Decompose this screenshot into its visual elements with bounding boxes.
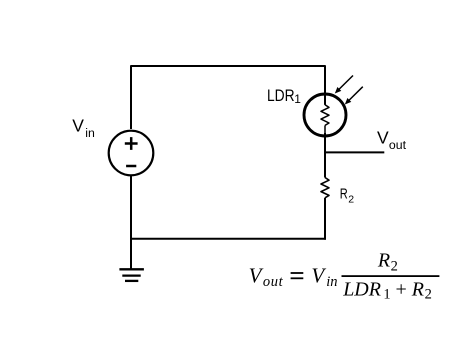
LDR zigzag element (321, 105, 329, 126)
wire bottom (ground junction to R2 bottom) (130, 238, 326, 240)
label R2 (340, 186, 354, 206)
wire left vertical (Vin bottom to ground junction) (130, 175, 132, 269)
light arrow 1 (335, 76, 353, 94)
source body circle (109, 131, 154, 176)
equation Vout = Vin * R2/(LDR1+R2) (249, 249, 440, 302)
LDR bottom lead (324, 125, 326, 133)
svg-text:V: V (311, 263, 326, 287)
LDR LDR1 (304, 94, 346, 136)
ground (119, 269, 143, 281)
minus polarity mark (126, 165, 136, 168)
wire LDR bottom to R2 top (324, 133, 326, 178)
svg-text:out: out (263, 274, 284, 290)
svg-text:V: V (72, 116, 84, 136)
svg-text:V: V (249, 263, 264, 287)
svg-text:R: R (377, 249, 390, 271)
svg-text:R: R (411, 278, 424, 300)
label V_in (72, 116, 95, 140)
svg-text:out: out (389, 138, 407, 152)
light arrow 2 (345, 87, 363, 105)
wire R2 bottom to bottom rail (324, 198, 326, 240)
svg-text:1: 1 (294, 92, 301, 106)
svg-text:2: 2 (425, 287, 432, 303)
node Vout junction (325, 151, 384, 153)
svg-text:R: R (340, 186, 348, 203)
label Vout (377, 128, 407, 153)
svg-text:V: V (377, 128, 389, 148)
resistor R2 (321, 178, 329, 198)
label LDR1 (267, 86, 301, 106)
svg-text:LDR: LDR (342, 278, 381, 300)
svg-text:2: 2 (391, 258, 398, 274)
svg-text:2: 2 (348, 193, 354, 205)
voltage source V_in (109, 131, 154, 176)
LDR top lead (324, 97, 326, 105)
wire top (Vin top to LDR top) (131, 66, 325, 129)
svg-text:1: 1 (383, 287, 390, 303)
svg-text:LDR: LDR (267, 86, 295, 105)
svg-text:in: in (326, 274, 337, 290)
plus polarity mark (125, 137, 138, 150)
svg-text:+: + (396, 278, 407, 300)
LDR body circle (304, 94, 346, 136)
svg-text:in: in (85, 126, 95, 140)
